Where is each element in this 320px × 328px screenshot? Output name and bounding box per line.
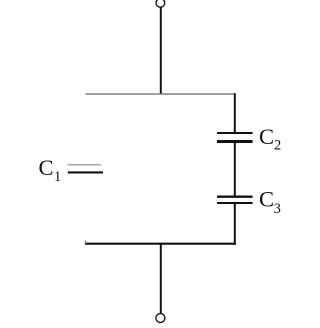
svg-text:C: C [259, 187, 274, 212]
svg-text:2: 2 [274, 138, 281, 154]
svg-text:C: C [259, 124, 274, 149]
svg-text:1: 1 [54, 169, 61, 185]
svg-text:3: 3 [274, 201, 281, 217]
svg-text:C: C [39, 155, 54, 180]
